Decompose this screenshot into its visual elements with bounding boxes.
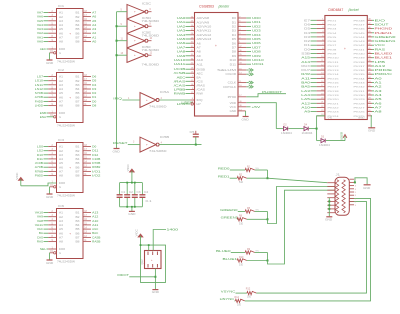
svg-text:D4: D4 (92, 83, 97, 87)
junction on inverter input bus (116, 54, 118, 56)
wire oscillator supply loop (141, 245, 166, 282)
svg-text:B4: B4 (76, 88, 81, 91)
svg-text:+: + (134, 24, 136, 28)
svg-text:D70B: D70B (92, 161, 101, 165)
svg-text:PIO2: PIO2 (328, 25, 338, 27)
capacitor C3 0.1uF (132, 183, 142, 207)
power VCC arrow to IC3 DIR (16, 172, 57, 186)
wire U1 address pin A6 (177, 41, 202, 45)
svg-text:S&LUM: S&LUM (217, 69, 236, 72)
wire U1 data pin D2 (232, 24, 261, 28)
wire capacitor bottom rail (120, 206, 143, 208)
wire U1 address pin A10 (174, 58, 204, 62)
wire RED0 join down (267, 170, 269, 178)
svg-text:+: + (69, 166, 71, 170)
svg-text:PIO21: PIO21 (328, 103, 340, 105)
wire U2 right pin 44 GREEN0 (354, 35, 397, 39)
svg-text:A3: A3 (59, 84, 64, 87)
svg-text:IRQ: IRQ (113, 96, 123, 100)
wire U2 right pin 29 A5 (354, 97, 383, 101)
wire U1 control pin BA (177, 75, 202, 79)
wire DB9 right pin stub 2 (350, 186, 357, 188)
svg-text:G: G (59, 52, 61, 55)
svg-text:B5: B5 (76, 228, 81, 231)
svg-text:A5: A5 (59, 162, 64, 165)
svg-text:PIO45: PIO45 (354, 33, 366, 35)
wire U2 left pin 21 A12 (301, 101, 340, 105)
wire U2 left pin 18 LA3 (301, 89, 340, 93)
svg-text:GND: GND (46, 62, 53, 65)
svg-text:IC5F: IC5F (142, 45, 152, 49)
svg-text:LS10: LS10 (35, 79, 44, 83)
svg-text:A5: A5 (59, 28, 64, 31)
wire IC3 output D11 pin 17 (83, 149, 99, 153)
svg-text:R6: R6 (239, 215, 243, 218)
svg-text:B8: B8 (76, 241, 81, 244)
svg-text:βender: βender (218, 4, 230, 8)
wire IC1 DIR pin 1 (40, 47, 57, 51)
svg-text:74LS245DW: 74LS245DW (57, 124, 75, 128)
wire U1 data pin D0 (232, 16, 261, 20)
wire IC2 input LS7 pin 2 (37, 75, 57, 79)
svg-text:BAC: BAC (92, 231, 98, 235)
svg-text:IRQ: IRQ (197, 99, 203, 102)
ground at IC1 G pin (46, 51, 56, 65)
wire IC3 input R7WB pin 8 (35, 169, 57, 173)
svg-text:CASB: CASB (92, 235, 100, 239)
svg-text:LS11: LS11 (35, 83, 44, 87)
svg-text:COLOR: COLOR (226, 73, 237, 76)
wire U2 right pin 28 A6 (354, 101, 383, 105)
svg-text:D4: D4 (304, 124, 308, 127)
svg-text:D8: D8 (92, 104, 97, 108)
svg-text:DOTCLK: DOTCLK (223, 86, 236, 89)
wire GREEN to DB9 pin 2 (268, 187, 336, 224)
svg-text:A7: A7 (59, 237, 64, 240)
wire U2 right pin 40 BLUE0 (354, 52, 393, 56)
wire D3 to standby supply (326, 140, 345, 142)
svg-text:VDD: VDD (230, 102, 237, 105)
svg-text:PIO26: PIO26 (354, 112, 366, 114)
svg-text:A1: A1 (92, 35, 97, 39)
svg-text:S7DB: S7DB (35, 91, 44, 95)
svg-text:VA7: VA7 (37, 11, 44, 15)
wire IC2 output D0 pin 12 (83, 99, 97, 103)
wire U1 data pin D8 (232, 50, 261, 54)
svg-text:B1: B1 (76, 12, 81, 15)
svg-text:A3: A3 (59, 220, 64, 223)
svg-text:0.1: 0.1 (146, 200, 153, 203)
wire DB9 left pin stub 7 (327, 204, 335, 206)
wire IC2 input LS11 pin 4 (35, 83, 57, 87)
svg-text:PIO3: PIO3 (328, 29, 338, 31)
wire output pin 6 of IC5C (148, 9, 152, 12)
svg-text:D0: D0 (232, 17, 237, 20)
svg-text:6: 6 (355, 195, 357, 197)
wire DB9 right pin stub 7 (350, 202, 357, 204)
svg-text:A5: A5 (59, 228, 64, 231)
wire U2 right pin 46 PHGND (354, 27, 394, 31)
wire IC1 output A7 pin 18 (83, 11, 97, 15)
wire U2 right pin 30 A4 (354, 93, 383, 97)
wire DB9 right pin stub 3 (350, 189, 357, 191)
svg-text:QG2: QG2 (141, 259, 144, 265)
svg-text:D10: D10 (37, 153, 44, 157)
svg-text:R2: R2 (239, 174, 243, 177)
oscillator Q2 14MHz (141, 251, 161, 269)
svg-text:LPB: LPB (177, 102, 186, 106)
svg-text:9: 9 (121, 24, 123, 26)
svg-text:5%: 5% (256, 209, 259, 211)
svg-text:C2: C2 (129, 191, 134, 194)
wire IC6 output RASB pin 11 (83, 240, 101, 244)
wire IC3 input LS2 pin 3 (37, 149, 57, 153)
wire input pin 5 of IC5C (117, 10, 128, 12)
svg-text:74LS245DW: 74LS245DW (57, 60, 75, 64)
svg-text:100: 100 (247, 296, 252, 299)
svg-text:+: + (344, 47, 346, 51)
wire U2 left pin 5 D3 (304, 35, 337, 39)
resistor R9 510 on net BLUE0 (216, 248, 268, 254)
svg-text:A9: A9 (197, 55, 202, 58)
svg-text:RED1: RED1 (218, 175, 230, 179)
svg-text:R10: R10 (239, 256, 244, 259)
svg-text:R14: R14 (235, 296, 240, 299)
wire U2 right pin 37 A13 (354, 64, 386, 68)
svg-text:A6: A6 (59, 232, 64, 235)
wire U1 data pin D5 (232, 37, 261, 41)
wire U2 right pin 47 SOUT (354, 23, 389, 27)
svg-text:B4: B4 (76, 24, 81, 27)
wire U2 right pin 34 A0 (354, 76, 383, 80)
svg-text:6: 6 (150, 9, 152, 11)
svg-text:GND: GND (46, 196, 53, 199)
wire D2 to D4 (289, 128, 304, 130)
svg-text:B5: B5 (76, 162, 81, 165)
wire IC1 output A5 pin 16 (83, 19, 97, 23)
svg-text:13: 13 (121, 53, 124, 55)
svg-text:+: + (146, 98, 148, 102)
svg-text:5%: 5% (256, 168, 259, 170)
svg-text:A6: A6 (92, 15, 97, 19)
wire RED to DB9 pin 1 (268, 178, 328, 183)
svg-text:IC5E: IC5E (142, 30, 152, 34)
svg-text:G: G (59, 186, 61, 189)
wire BLUE to DB9 pin 3 (268, 190, 336, 264)
wire IC3 output D70B pin 14 (83, 161, 101, 165)
wire input pin 11 of IC5E (117, 39, 128, 41)
svg-text:IC5A: IC5A (160, 90, 170, 94)
svg-text:RESET: RESET (113, 141, 128, 145)
svg-text:LHDD: LHDD (35, 104, 43, 108)
svg-text:I/O1: I/O1 (92, 169, 101, 173)
wire IC2 output D2 pin 14 (83, 91, 97, 95)
svg-text:B1: B1 (76, 146, 81, 149)
wire U2 right pin 25 GND (354, 114, 373, 118)
wire GREEN0 join down (267, 212, 269, 220)
buffer IC IC6 74LS245 (57, 204, 84, 264)
wire D4 to VS net junction (309, 128, 317, 130)
svg-text:DIR: DIR (59, 248, 65, 251)
capacitor C4 0.1uF (139, 183, 149, 207)
ground below capacitor bank (131, 207, 133, 212)
svg-text:12: 12 (150, 53, 153, 55)
ground at IC3 G pin (46, 185, 56, 199)
svg-text:A7DB: A7DB (35, 95, 44, 99)
svg-text:PIO22: PIO22 (328, 108, 340, 110)
svg-text:A0: A0 (92, 40, 97, 44)
resistor R14 100 on net HSYNC (220, 296, 245, 306)
wire U1 data pin D4 (232, 33, 261, 37)
wire U2 right pin 27 A7 (354, 106, 383, 110)
junction reset line / C5 (195, 144, 197, 146)
svg-text:J1: J1 (336, 173, 341, 177)
wire U1 data pin D9 (232, 54, 261, 58)
svg-text:VA10: VA10 (35, 211, 44, 215)
wire U1 control pin /CS (174, 79, 204, 83)
wire IC6 input VA8 pin 4 (37, 219, 57, 223)
svg-text:PIO29: PIO29 (354, 99, 366, 101)
wire U2 left pin 7 D1 (304, 43, 337, 47)
svg-text:PIO47: PIO47 (354, 25, 366, 27)
wire U1 data pin D7 (232, 45, 261, 49)
inverter IC5D 74LS06D (127, 16, 159, 38)
svg-text:PIO41: PIO41 (354, 49, 366, 51)
svg-text:A3: A3 (59, 154, 64, 157)
wire IC1 input VA1 pin 8 (37, 35, 57, 39)
wire U2 VS pin to diode junction (317, 116, 325, 141)
wire capacitor top rail (120, 182, 143, 184)
svg-text:D3: D3 (92, 87, 97, 91)
svg-text:PIO24: PIO24 (328, 116, 340, 118)
svg-text:A8: A8 (59, 175, 64, 178)
svg-text:510: 510 (239, 264, 244, 267)
svg-text:A4: A4 (59, 88, 64, 91)
svg-text:ENA: ENA (40, 115, 46, 119)
svg-text:LS0: LS0 (37, 145, 44, 149)
wire U1 PHI0 output net PHI0DOT (228, 90, 286, 99)
svg-text:PIO20: PIO20 (328, 99, 340, 101)
wire DB9 left pin stub 6 (327, 200, 335, 202)
svg-text:RED0: RED0 (218, 166, 230, 170)
wire IC1 input VA0 pin 9 (37, 40, 57, 44)
svg-text:PIO38: PIO38 (354, 62, 366, 64)
wire IC6 input RAS pin 9 (37, 240, 57, 244)
svg-text:PIO7: PIO7 (328, 45, 338, 47)
wire DB9 right pin stub 1 (350, 182, 357, 184)
svg-text:3: 3 (355, 186, 357, 188)
svg-text:IC5D: IC5D (142, 16, 151, 20)
svg-text:D11: D11 (230, 63, 237, 66)
svg-text:1400: 1400 (167, 228, 179, 232)
power VSTBY arrow (341, 131, 347, 140)
svg-text:A7: A7 (59, 171, 64, 174)
wire U2 right pin 26 A8 (354, 110, 383, 114)
wire IC3 output D12 pin 16 (83, 153, 99, 157)
wire DB9 left pin stub 4 (327, 193, 335, 195)
svg-text:VA9: VA9 (37, 215, 44, 219)
svg-text:VCC: VCC (127, 164, 130, 171)
svg-text:+: + (134, 10, 136, 14)
svg-text:A6: A6 (59, 166, 64, 169)
svg-text:B3: B3 (76, 20, 81, 23)
svg-text:A7: A7 (59, 101, 64, 104)
svg-text:RWB2: RWB2 (92, 165, 101, 169)
svg-text:11: 11 (121, 39, 124, 41)
svg-text:CSG8563: CSG8563 (199, 4, 214, 8)
svg-text:R/W: R/W (197, 93, 204, 96)
wire DB9 right pin stub 8 (350, 205, 357, 207)
svg-text:B2: B2 (76, 216, 81, 219)
wire U2 right pin 41 RAS (354, 47, 386, 51)
svg-text:A8: A8 (59, 41, 64, 44)
svg-text:FWDD: FWDD (35, 174, 43, 178)
svg-text:D11: D11 (92, 149, 99, 153)
wire IC1 input VA7 pin 2 (37, 11, 57, 15)
wire U2 right pin 36 PRD/E (354, 68, 393, 72)
svg-text:D3: D3 (321, 136, 325, 139)
svg-text:JC0B: JC0B (35, 161, 44, 165)
svg-text:PIO12: PIO12 (328, 66, 340, 68)
svg-text:5: 5 (121, 10, 123, 12)
svg-text:PIO14: PIO14 (328, 74, 340, 76)
svg-text:PIO18: PIO18 (328, 91, 340, 93)
svg-text:VA5: VA5 (37, 19, 44, 23)
wire U2 left pin 16 BA0 (301, 81, 340, 85)
junction capacitor rail bottom (126, 206, 128, 208)
wire IC2 DIR pin 1 (40, 111, 57, 115)
svg-text:+: + (134, 53, 136, 57)
svg-text:PHI0: PHI0 (228, 96, 237, 99)
wire inverter input bus vertical (116, 12, 118, 149)
wire IC2 output D1 pin 13 (83, 95, 97, 99)
wire output pin 12 of IC5F (148, 53, 153, 56)
wire IC1 output A1 pin 12 (83, 35, 97, 39)
svg-text:PIO36: PIO36 (354, 70, 366, 72)
wire U1 address pin A2/VA10 (177, 24, 213, 28)
wire IC2 input LHDD pin 9 (35, 104, 57, 108)
svg-text:A7: A7 (92, 11, 97, 15)
svg-text:C10B: C10B (92, 157, 101, 161)
svg-text:74LS06D: 74LS06D (142, 62, 160, 66)
ground at inverter input bus (113, 149, 120, 154)
svg-text:UD11: UD11 (252, 62, 264, 66)
junction capacitor rail top (126, 182, 128, 184)
svg-text:VCC: VCC (136, 229, 139, 236)
resistor R12 100 on net VSYNC (221, 288, 257, 299)
inverter IC5B 74LS06D (140, 137, 156, 152)
svg-text:D4: D4 (232, 34, 237, 37)
ground at U2 pin 25 (368, 116, 375, 133)
wire input pin 9 of IC5D (117, 24, 128, 26)
wire U2 left pin 22 A10 (301, 106, 340, 110)
wire U2 right pin 43 GREEN1 (354, 39, 397, 43)
svg-text:VA8: VA8 (37, 219, 44, 223)
resistor R1 510 on net RED0 (218, 165, 268, 171)
svg-text:VA4: VA4 (37, 23, 44, 27)
svg-text:+: + (134, 39, 136, 43)
wire DB9 left pin stub 1 (327, 182, 335, 184)
wire IC1 input VA3 pin 6 (37, 27, 57, 31)
wire DB9 right pin stub 4 (350, 192, 357, 194)
svg-text:PIO43: PIO43 (354, 41, 366, 43)
wire U2 right pin 31 A3 (354, 89, 383, 93)
svg-text:PIO28: PIO28 (354, 103, 366, 105)
svg-text:IC1: IC1 (58, 4, 65, 8)
wire U2 right pin 39 BLUE1 (354, 56, 393, 60)
wire DB9 right pin stub 6 (350, 198, 357, 200)
wire IC1 input VA2 pin 7 (37, 31, 57, 35)
svg-text:LP: LP (197, 103, 202, 106)
wire U2 left pin 14 R/W (301, 72, 340, 76)
svg-text:A5: A5 (59, 92, 64, 95)
wire U2 left pin 1 E7 (304, 18, 337, 22)
wire IC2 output D5 pin 17 (83, 79, 97, 83)
wire IC6 output CASB pin 12 (83, 235, 101, 239)
wire IC3 output I/O2 pin 11 (83, 174, 101, 178)
svg-text:A0/VA8: A0/VA8 (197, 17, 211, 20)
svg-text:A6: A6 (197, 42, 202, 45)
svg-text:4: 4 (355, 189, 357, 191)
svg-text:PIO32: PIO32 (354, 87, 366, 89)
wire IC6 output A13 pin 18 (83, 211, 99, 215)
svg-text:PIO19: PIO19 (328, 95, 340, 97)
wire RESET input to IC5B pin 3 (113, 141, 140, 145)
svg-text:+: + (69, 96, 71, 100)
diode D2 1N4004 (276, 124, 292, 135)
svg-text:+: + (69, 32, 71, 36)
wire U1 address pin A11 (174, 62, 204, 66)
power VCC arrow for oscillator (138, 234, 143, 237)
svg-text:B6: B6 (76, 96, 81, 99)
wire U2 left pin 13 MU7 (301, 68, 340, 72)
output flag U1 DOTCLK (223, 85, 253, 89)
svg-text:B4: B4 (76, 224, 81, 227)
wire U1 address pin A1/VA9 (177, 20, 211, 24)
svg-text:B6: B6 (76, 32, 81, 35)
svg-text:A11: A11 (92, 223, 99, 227)
wire U1 address pin A3/VA11 (177, 29, 213, 33)
svg-text:R9: R9 (247, 248, 251, 251)
wire IC3 input JC0B pin 6 (35, 161, 57, 165)
svg-text:+: + (151, 259, 153, 262)
wire IRQ input to IC5A pin 1 (113, 96, 140, 100)
junction RED0/RED1 (267, 177, 269, 179)
ground at U1 GND pin (230, 109, 249, 121)
svg-text:RASB: RASB (92, 240, 100, 244)
svg-text:IC2: IC2 (58, 68, 65, 72)
svg-text:R/WB: R/WB (174, 92, 186, 96)
svg-text:DIR: DIR (59, 48, 65, 51)
svg-text:8: 8 (150, 24, 152, 26)
wire output pin 8 of IC5D (148, 24, 152, 27)
svg-text:PHI0DOT: PHI0DOT (262, 90, 283, 94)
svg-text:A9: A9 (304, 110, 310, 114)
wire input pin 13 of IC5F (117, 53, 128, 55)
wire IC6 input VA11 pin 5 (35, 223, 57, 227)
wire IC5B output pin 4 (159, 143, 201, 145)
svg-text:βocket: βocket (348, 8, 360, 12)
svg-text:PIO46: PIO46 (354, 29, 366, 31)
wire IC1 output A6 pin 17 (83, 15, 97, 19)
svg-text:A8: A8 (197, 51, 202, 54)
wire U1 VDD to diode chain (230, 101, 277, 129)
svg-text:R1: R1 (247, 165, 251, 168)
wire U2 left pin 11 A14 (301, 60, 340, 64)
svg-text:PIO40: PIO40 (354, 54, 366, 56)
wire IC6 output A11 pin 15 (83, 223, 99, 227)
svg-text:B8: B8 (76, 41, 81, 44)
